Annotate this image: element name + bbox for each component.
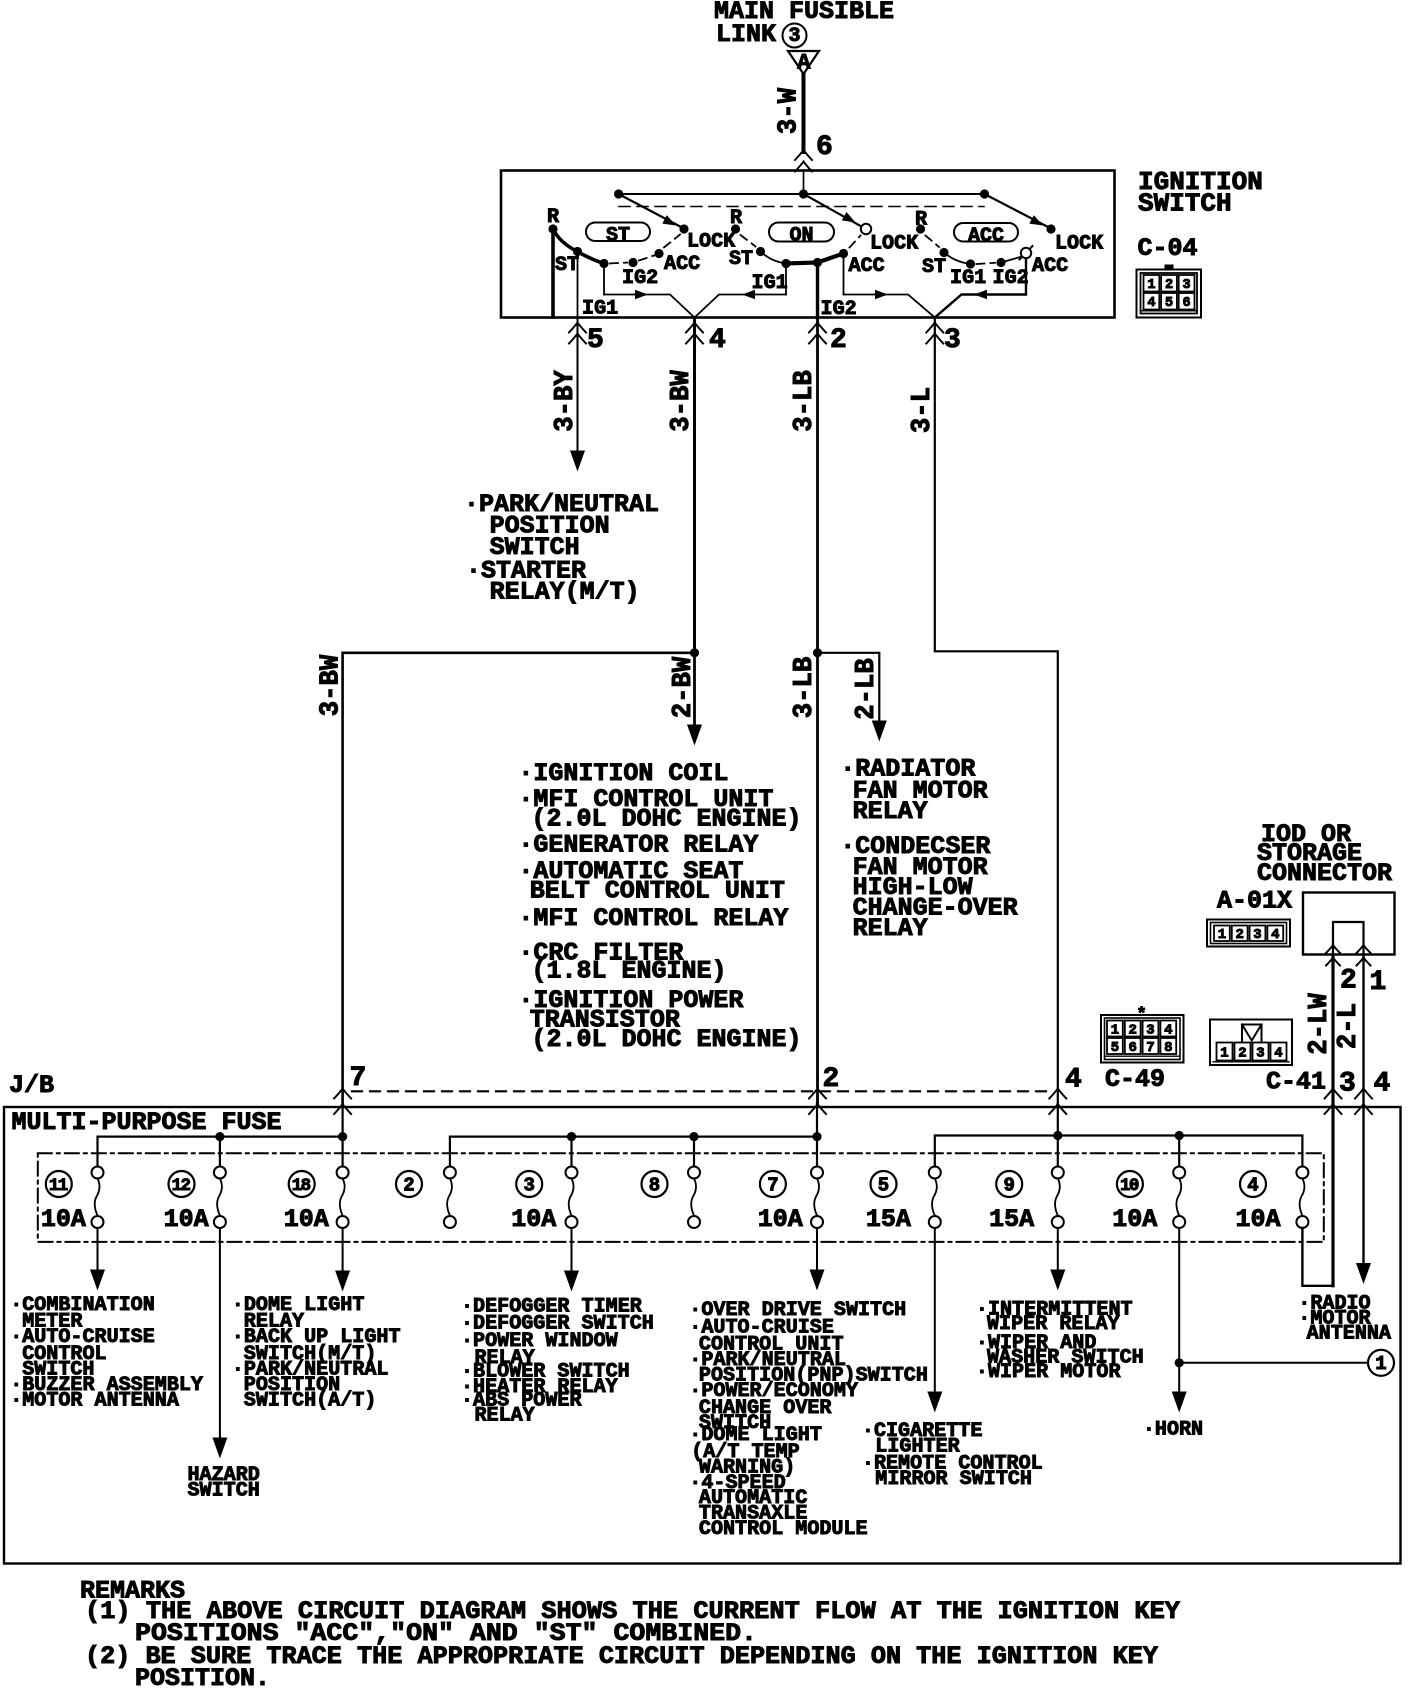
wire label 3-L (908, 387, 938, 433)
asterisk above C-49 (1137, 1006, 1147, 1025)
node bus-ST (614, 189, 623, 198)
svg-text:IG2: IG2 (821, 298, 857, 321)
svg-text:R: R (547, 206, 560, 229)
load list: combination meter etc. (10, 1294, 203, 1413)
svg-text:8: 8 (649, 1175, 660, 1197)
svg-text:10A: 10A (164, 1205, 209, 1234)
wire 2-LB branch (818, 653, 880, 720)
pin 2 chevrons (809, 323, 826, 344)
svg-text:7: 7 (1146, 1040, 1154, 1056)
svg-text:7: 7 (767, 1175, 778, 1197)
svg-text:2-L: 2-L (1334, 1003, 1364, 1049)
pin 3 number (944, 325, 961, 356)
fuse 12 output wire (212, 1228, 227, 1459)
load list: cigarette lighter etc. (862, 1420, 1043, 1491)
fuse 4 output wire to IOD (1302, 1228, 1333, 1286)
node 3-LB branch junction (813, 648, 822, 657)
svg-text:2: 2 (1238, 1045, 1246, 1061)
wire label 3-W (775, 87, 805, 134)
connector C-41 pin grid (1210, 1020, 1292, 1066)
svg-text:(2.0L DOHC ENGINE): (2.0L DOHC ENGINE) (532, 1025, 802, 1054)
svg-text:3: 3 (1183, 278, 1191, 293)
remark (1) (85, 1597, 1180, 1648)
svg-text:10A: 10A (41, 1205, 86, 1234)
fuse strip dash-dot border (38, 1153, 1324, 1242)
load list: over drive switch etc. (689, 1299, 928, 1541)
svg-text:ACC: ACC (664, 253, 700, 276)
pin 5 number (587, 325, 604, 356)
fuse 3 (511, 1167, 577, 1235)
dashed key-position line (619, 206, 984, 208)
wire label 2-BW (669, 656, 699, 718)
load label: horn (1143, 1419, 1203, 1442)
svg-text:10A: 10A (284, 1205, 329, 1234)
IG1 collector funnel to pin 4 (604, 290, 786, 318)
wire label 3-LB (790, 370, 820, 432)
load list: ignition coil / MFI control unit etc. (518, 759, 801, 1054)
fuse 8 (642, 1167, 701, 1229)
svg-text:RELAY: RELAY (853, 797, 928, 826)
svg-text:6: 6 (1183, 296, 1191, 311)
load list: park/neutral position switch + starter relay (464, 490, 659, 607)
pin number 4 (J/B) (1065, 1065, 1082, 1096)
connector designator C-41 (1266, 1068, 1326, 1097)
svg-text:2-LB: 2-LB (852, 658, 882, 720)
label IOD OR STORAGE CONNECTOR (1257, 820, 1392, 888)
svg-text:IG1: IG1 (752, 272, 788, 295)
svg-text:4: 4 (1147, 296, 1155, 311)
svg-text:10A: 10A (511, 1205, 556, 1234)
svg-text:RELAY: RELAY (853, 914, 928, 943)
pin number 4 (into J/B) (1374, 1069, 1391, 1100)
node 3-BW branch junction (690, 648, 699, 657)
svg-text:3: 3 (788, 25, 800, 48)
svg-text:SWITCH: SWITCH (188, 1480, 260, 1503)
svg-text:4: 4 (1164, 1022, 1172, 1038)
svg-text:·MFI CONTROL RELAY: ·MFI CONTROL RELAY (518, 904, 788, 933)
connector chevrons at ignition switch pin 6 (795, 150, 812, 172)
node bus-ON (799, 189, 808, 198)
IOD pin chevrons (1326, 945, 1371, 966)
fuse 9 output wire (1050, 1228, 1065, 1291)
wire label 3-BW (branch) (317, 654, 347, 716)
fuse 18 (284, 1167, 349, 1235)
svg-text:5: 5 (1165, 296, 1173, 311)
IG1 fuse bus (98, 1103, 348, 1167)
svg-text:C-41: C-41 (1266, 1068, 1326, 1097)
svg-text:1: 1 (1111, 1022, 1119, 1038)
pin number 3 (into J/B) (1339, 1069, 1356, 1100)
svg-text:2: 2 (1235, 927, 1243, 943)
svg-text:15A: 15A (866, 1205, 911, 1234)
svg-text:·IGNITION COIL: ·IGNITION COIL (518, 759, 728, 788)
pin 4 number (709, 325, 726, 356)
svg-text:ON: ON (789, 225, 813, 248)
svg-text:2: 2 (403, 1175, 414, 1197)
wire 3-BW branch to fuse box (343, 653, 695, 1104)
svg-text:5: 5 (878, 1175, 889, 1197)
wire 3-LB vertical (816, 318, 819, 1104)
svg-text:(2.0L DOHC ENGINE): (2.0L DOHC ENGINE) (532, 805, 802, 834)
fuse 10 output wire (1172, 1228, 1368, 1413)
svg-text:LINK: LINK (716, 20, 776, 49)
ignition switch ON-position contact set (729, 194, 919, 318)
svg-text:5: 5 (587, 325, 604, 356)
svg-text:ANTENNA: ANTENNA (1307, 1323, 1392, 1346)
fuse 7 (758, 1167, 823, 1235)
svg-text:ACC: ACC (849, 255, 885, 278)
arrow to ignition coil etc. (687, 725, 702, 746)
ACC collector funnel to pin 3 (844, 290, 935, 318)
svg-text:3: 3 (523, 1175, 534, 1197)
svg-text:10A: 10A (1112, 1205, 1157, 1234)
pin 5 chevrons (569, 323, 586, 344)
multi-purpose fuse box outline (4, 1107, 1401, 1564)
pin 2 number (830, 325, 847, 356)
arrow to radiator fan motor relay (872, 721, 887, 742)
svg-text:6: 6 (816, 132, 833, 163)
pin 3 chevrons (926, 323, 943, 344)
svg-text:3-BW: 3-BW (667, 369, 697, 431)
J/B entry chevrons 2-LW (1325, 1089, 1342, 1115)
svg-text:ACC: ACC (968, 225, 1004, 248)
load label: hazard switch (188, 1464, 260, 1503)
wire label 2-L (1334, 1003, 1364, 1049)
node bus-ACC (980, 189, 989, 198)
svg-text:C-04: C-04 (1138, 234, 1198, 263)
fuse 2 (396, 1167, 456, 1229)
svg-text:(1.8L ENGINE): (1.8L ENGINE) (532, 957, 727, 986)
label J/B (9, 1071, 54, 1100)
fuse 5 (866, 1167, 941, 1235)
wire 3-L (935, 318, 1058, 1104)
load list: defogger timer etc. (461, 1296, 654, 1428)
svg-text:LOCK: LOCK (1055, 233, 1104, 256)
svg-text:1: 1 (1375, 1353, 1386, 1375)
connector C-49 pin grid (1101, 1015, 1184, 1063)
svg-text:18: 18 (292, 1176, 311, 1196)
svg-text:4: 4 (1271, 927, 1279, 943)
remarks heading (80, 1577, 185, 1606)
svg-text:LOCK: LOCK (870, 233, 919, 256)
svg-text:SWITCH(A/T): SWITCH(A/T) (244, 1390, 377, 1413)
wire 3-BW vertical (693, 318, 696, 653)
svg-text:J/B: J/B (9, 1071, 54, 1100)
pin 4 chevrons (686, 323, 703, 344)
connector A-01X pin grid (1207, 920, 1290, 947)
fuse 18 output wire (335, 1228, 350, 1292)
svg-text:1: 1 (1370, 967, 1387, 998)
svg-text:8: 8 (1164, 1040, 1172, 1056)
svg-text:3-BY: 3-BY (551, 369, 581, 431)
fuse 11 output wire (90, 1228, 105, 1291)
svg-text:3: 3 (1256, 1045, 1264, 1061)
J/B entry chevrons 3-L (1049, 1089, 1066, 1115)
IOD connector internal link (1333, 922, 1364, 955)
ignition switch ST-position contact set (547, 194, 736, 321)
svg-text:10: 10 (1120, 1176, 1139, 1196)
IOD or storage connector box (1303, 893, 1395, 955)
wire 2-BW (693, 653, 696, 724)
svg-text:R: R (915, 209, 928, 232)
fusible link symbol A (triangle) (788, 50, 819, 75)
wire 3-W (main fusible link to ignition switch pin 6) (802, 74, 806, 152)
svg-text:15A: 15A (989, 1205, 1034, 1234)
svg-text:3-BW: 3-BW (317, 654, 347, 716)
label IGNITION SWITCH (1138, 167, 1263, 219)
wire 3-BY (577, 318, 579, 450)
label MAIN FUSIBLE LINK (714, 0, 894, 49)
svg-text:C-49: C-49 (1105, 1065, 1165, 1094)
ACC fuse bus (935, 1103, 1303, 1167)
svg-text:4: 4 (1247, 1175, 1258, 1197)
J/B entry chevrons 2-L (1355, 1089, 1372, 1115)
svg-text:IG1: IG1 (950, 267, 986, 290)
svg-text:POSITION.: POSITION. (135, 1664, 270, 1693)
svg-text:A: A (797, 50, 811, 75)
svg-text:10A: 10A (758, 1205, 803, 1234)
svg-text:MIRROR SWITCH: MIRROR SWITCH (875, 1468, 1032, 1491)
svg-text:10A: 10A (1236, 1205, 1281, 1234)
svg-text:3-LB: 3-LB (790, 370, 820, 432)
wire 2-L (1362, 955, 1364, 1263)
svg-text:·HORN: ·HORN (1143, 1419, 1203, 1442)
svg-text:9: 9 (1003, 1175, 1014, 1197)
svg-text:2: 2 (1340, 966, 1357, 997)
node 1 (circled) to instrument harness (1368, 1350, 1394, 1376)
ignition switch box outline (501, 171, 1115, 318)
svg-text:2: 2 (1128, 1022, 1136, 1038)
svg-text:RELAY(M/T): RELAY(M/T) (490, 578, 640, 607)
svg-text:RELAY: RELAY (475, 1405, 536, 1428)
svg-text:3: 3 (1253, 927, 1261, 943)
svg-text:3: 3 (1146, 1022, 1154, 1038)
svg-text:CONNECTOR: CONNECTOR (1257, 859, 1392, 888)
svg-text:ST: ST (922, 256, 946, 279)
svg-text:4: 4 (709, 325, 726, 356)
fuse 3 output wire (564, 1228, 579, 1292)
svg-text:R: R (730, 207, 743, 230)
load list: dome light relay etc. (232, 1294, 401, 1413)
wire label 3-BW (667, 369, 697, 431)
fuse 10 (1112, 1167, 1185, 1235)
pin number 2 (J/B) (823, 1064, 840, 1095)
label IG2 at pin 2 (821, 298, 857, 321)
ignition switch ACC-position contact set (915, 194, 1104, 318)
wire 2-LW (1331, 955, 1334, 1286)
fuse 11 (41, 1167, 104, 1235)
connector designator A-01X (1217, 887, 1292, 916)
svg-text:2: 2 (1165, 278, 1173, 293)
svg-text:ST: ST (606, 225, 630, 248)
svg-text:11: 11 (49, 1176, 68, 1196)
connector designator C-04 (1138, 234, 1198, 263)
svg-text:ACC: ACC (1032, 255, 1068, 278)
svg-text:3: 3 (944, 325, 961, 356)
svg-text:·MOTOR ANTENNA: ·MOTOR ANTENNA (10, 1390, 179, 1413)
J/B entry chevrons 3-BW (334, 1089, 351, 1115)
svg-text:12: 12 (172, 1176, 191, 1196)
arrow to park/neutral position switch (570, 451, 585, 472)
svg-text:3-L: 3-L (908, 387, 938, 433)
svg-text:6: 6 (1128, 1040, 1136, 1056)
svg-text:ST: ST (729, 248, 753, 271)
svg-text:4: 4 (1274, 1045, 1282, 1061)
wire label 3-LB (below junction) (790, 657, 820, 719)
svg-text:·WIPER MOTOR: ·WIPER MOTOR (976, 1361, 1121, 1384)
load list: radiator fan motor relay / condenser fan motor relay (840, 755, 1017, 944)
arrow to radio motor antenna (1356, 1263, 1371, 1284)
load list: radio motor antenna (1298, 1293, 1391, 1346)
pin number 1 (IOD) (1370, 967, 1387, 998)
svg-text:1: 1 (1218, 927, 1226, 943)
label MULTI-PURPOSE FUSE (12, 1108, 282, 1137)
svg-text:2-LW: 2-LW (1305, 992, 1335, 1054)
IG2 fuse bus (450, 1103, 822, 1167)
connector designator C-49 (1105, 1065, 1165, 1094)
fuse 5 output wire (927, 1228, 942, 1413)
pin number 6 (816, 132, 833, 163)
wire label 2-LW (1305, 992, 1335, 1054)
remark (2) (85, 1642, 1158, 1693)
svg-text:2: 2 (830, 325, 847, 356)
load list: intermittent wiper relay etc. (976, 1299, 1144, 1385)
svg-text:7: 7 (350, 1063, 367, 1094)
circled 3 (fusible link No.3) (783, 24, 807, 49)
svg-text:ST: ST (555, 254, 579, 277)
connector C-04 pin grid (1137, 265, 1202, 318)
svg-text:3-LB: 3-LB (790, 657, 820, 719)
pin number 7 (350, 1063, 367, 1094)
svg-text:1: 1 (1220, 1045, 1228, 1061)
svg-text:MULTI-PURPOSE FUSE: MULTI-PURPOSE FUSE (12, 1108, 282, 1137)
svg-text:5: 5 (1111, 1040, 1119, 1056)
svg-text:CONTROL MODULE: CONTROL MODULE (699, 1518, 868, 1541)
wire pin6 into bus (803, 171, 805, 195)
svg-text:BELT CONTROL UNIT: BELT CONTROL UNIT (530, 877, 785, 906)
J/B entry chevrons 3-LB (809, 1089, 826, 1115)
svg-text:1: 1 (1147, 278, 1155, 293)
svg-text:IG2: IG2 (622, 267, 658, 290)
svg-text:2-BW: 2-BW (669, 656, 699, 718)
ignition switch supply bus (619, 193, 985, 195)
svg-text:·GENERATOR RELAY: ·GENERATOR RELAY (518, 831, 758, 860)
pin number 2 (IOD) (1340, 966, 1357, 997)
fuse 4 (1236, 1167, 1309, 1235)
fuse 7 output wire (810, 1228, 825, 1291)
junction block dashed boundary (352, 1090, 1052, 1092)
svg-text:4: 4 (1374, 1069, 1391, 1100)
svg-text:A-01X: A-01X (1217, 887, 1292, 916)
svg-text:2: 2 (823, 1064, 840, 1095)
fuse 12 (164, 1167, 226, 1235)
svg-text:4: 4 (1065, 1065, 1082, 1096)
wire label 2-LB (852, 658, 882, 720)
wire label 3-BY (551, 369, 581, 431)
svg-text:SWITCH: SWITCH (1138, 189, 1232, 219)
svg-text:3-W: 3-W (775, 87, 805, 134)
svg-text:IG2: IG2 (993, 267, 1029, 290)
svg-text:IG1: IG1 (582, 298, 618, 321)
svg-text:3: 3 (1339, 1069, 1356, 1100)
fuse 9 (989, 1167, 1064, 1235)
